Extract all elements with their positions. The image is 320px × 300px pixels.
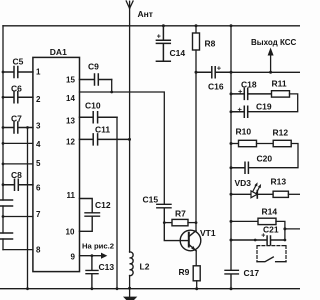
svg-text:C6: C6: [11, 84, 22, 94]
node: bus-C8 junction: [2, 183, 5, 186]
node: bus-pin5 junction: [2, 163, 5, 166]
wire: bottom ground bus: [0, 288, 300, 290]
node: C18 on right column: [230, 92, 233, 95]
svg-text:C13: C13: [99, 262, 115, 272]
svg-text:1: 1: [36, 68, 41, 77]
op-amp U1: IC DA1 box: [33, 57, 80, 271]
node: C17 on bottom bus: [230, 287, 233, 290]
svg-text:C15: C15: [143, 195, 159, 205]
svg-text:+: +: [157, 34, 161, 41]
svg-text:C12: C12: [95, 200, 111, 210]
wire: left bus vertical x=3 (upper part): [2, 26, 4, 200]
wire: C9 drop to pin14 wire: [111, 80, 113, 93]
wire: right column x=231 from top bus to C17: [230, 26, 232, 270]
inductor L2: [130, 252, 134, 276]
node: C7-dropline junction: [26, 126, 29, 129]
svg-text:R8: R8: [205, 39, 216, 49]
svg-text:DA1: DA1: [50, 47, 67, 57]
node: L2 on bottom bus: [128, 287, 131, 290]
svg-text:15: 15: [66, 76, 75, 85]
node: C14 on top bus: [162, 24, 165, 27]
node: R9 on bottom bus: [195, 287, 198, 290]
node: pin9-C13 junction: [91, 254, 94, 257]
wire: emitter down to R9: [195, 251, 197, 266]
svg-text:R11: R11: [272, 79, 287, 89]
node: R7 right junction on collector line: [195, 221, 198, 224]
svg-text:12: 12: [66, 138, 75, 147]
node: bus-C5 junction: [2, 71, 5, 74]
resistor R9: [193, 266, 200, 281]
wire: C10 drop line to bottom bus: [116, 117, 118, 288]
node: output arrow junction: [269, 71, 272, 74]
resistor R7: [164, 222, 172, 224]
node: C9 drop on pin14 wire: [110, 91, 113, 94]
wire: VD3 branch: [231, 193, 273, 195]
capacitor C17: [225, 270, 238, 288]
svg-text:C7: C7: [11, 114, 22, 124]
wire: antenna line down: [129, 8, 131, 252]
resistor R11: [272, 91, 290, 97]
capacitor C18: [231, 88, 272, 99]
svg-text:13: 13: [66, 117, 75, 126]
svg-text:R12: R12: [273, 128, 289, 138]
diode VD3 (LED): [251, 191, 257, 198]
capacitor (unlabeled, cut at left edge, upper inline): [0, 200, 13, 206]
node: C13 on bottom bus: [91, 287, 94, 290]
node: C16/right column junction: [230, 71, 233, 74]
svg-text:14: 14: [66, 94, 75, 103]
svg-text:3: 3: [36, 122, 41, 131]
wire: R10 to R12: [257, 143, 274, 145]
node: VD3 on right column: [230, 193, 233, 196]
capacitor C7: [3, 122, 33, 133]
node: R14 on right column: [230, 220, 233, 223]
svg-text:VT1: VT1: [200, 228, 216, 238]
node: C19 on right column: [230, 110, 233, 113]
svg-text:C19: C19: [256, 102, 272, 112]
svg-text:8: 8: [36, 246, 41, 255]
svg-text:R14: R14: [262, 207, 278, 217]
wire: pin 4 to left bus: [3, 142, 33, 144]
capacitor C19: [231, 106, 248, 117]
svg-text:9: 9: [71, 253, 76, 262]
svg-text:На рис.2: На рис.2: [82, 241, 114, 250]
svg-text:C5: C5: [13, 57, 24, 67]
svg-text:C16: C16: [208, 82, 224, 92]
svg-text:R9: R9: [179, 267, 190, 277]
svg-text:7: 7: [36, 210, 41, 219]
svg-text:C18: C18: [241, 80, 257, 90]
capacitor C14: [156, 26, 170, 61]
wire: pin 7 to left bus: [3, 216, 33, 218]
wire: R8 down to collector: [195, 50, 197, 231]
capacitor C13: [86, 256, 98, 289]
svg-text:6: 6: [36, 184, 41, 193]
svg-text:C8: C8: [11, 170, 22, 180]
resistor R10: [231, 143, 239, 145]
svg-text:R13: R13: [271, 177, 287, 187]
wire: R12 right corner down to C20: [249, 144, 298, 168]
ground: [123, 297, 137, 300]
node: dashed-box left tie on C21 wire: [254, 239, 257, 242]
capacitor C6: [3, 92, 33, 103]
capacitor C10 (pin 13): [80, 112, 118, 123]
capacitor C11 (pin 12): [80, 134, 130, 145]
resistor R8: [195, 26, 197, 33]
node: bus-pin7 junction: [2, 215, 5, 218]
svg-text:+: +: [261, 233, 265, 240]
node: C16 tap on R8 line: [195, 71, 198, 74]
capacitor (unlabeled, cut at left edge, lower inline): [0, 233, 13, 239]
wire: R14 right corner down to C21: [276, 221, 285, 240]
node: C21 on right column: [230, 239, 233, 242]
wire: left bus lower part down to pin8 corner: [2, 239, 4, 250]
node: R10 on right column: [230, 142, 233, 145]
svg-text:+: +: [238, 87, 243, 96]
svg-text:+: +: [217, 64, 222, 73]
capacitor C16: [196, 67, 231, 78]
wire: tap to right edge y=228.9: [285, 228, 300, 230]
transistor VT1: [180, 230, 201, 251]
svg-text:C9: C9: [88, 62, 99, 72]
node: R7 left junction: [163, 221, 166, 224]
wire: pin 9 output: [80, 255, 102, 257]
node: bus-C7 junction: [2, 126, 5, 129]
capacitor C21: [231, 236, 285, 245]
wire: drop line from C7 node down to bottom bus: [27, 128, 29, 289]
node: tap junction: [283, 227, 286, 230]
node: C20 on right column: [230, 166, 233, 169]
svg-text:C11: C11: [95, 125, 110, 135]
svg-text:5: 5: [36, 159, 41, 168]
svg-text:C10: C10: [85, 101, 101, 111]
node: right column on top bus: [230, 24, 233, 27]
resistor R12: [273, 140, 291, 146]
capacitor C15: [157, 204, 189, 240]
wire: top supply bus y=25.8: [3, 25, 300, 27]
arrow: to fig.2: [101, 253, 107, 259]
wire: left bus between inline caps: [2, 206, 4, 233]
wire: pin 8 from left bus corner: [3, 249, 33, 251]
wire: pin 14 to C15 column: [80, 92, 165, 204]
arrow: KSS output: [270, 53, 272, 72]
wire: R11 right corner down: [248, 94, 297, 112]
antenna symbol: [126, 1, 133, 8]
svg-text:+: +: [238, 105, 243, 114]
svg-text:C14: C14: [170, 48, 186, 58]
wire: ground stub below bus: [129, 288, 131, 296]
node: bus-C6 junction: [2, 96, 5, 99]
capacitor C12 (pins 11-10): [80, 199, 100, 232]
wire: L2 bottom to bus: [129, 276, 131, 289]
wire: R14 branch: [231, 220, 258, 222]
svg-text:10: 10: [66, 228, 75, 237]
resistor R14: [258, 218, 276, 224]
node: R8 on top bus: [195, 24, 198, 27]
svg-text:4: 4: [36, 140, 41, 149]
resistor R13: [273, 191, 288, 197]
capacitor C20: [231, 162, 248, 173]
node: C10 drop on bottom bus: [116, 287, 119, 290]
wire: output rail y=72.3 to right edge: [231, 71, 300, 73]
capacitor C9 (pin 15): [80, 74, 112, 85]
node: drop line on bottom bus: [26, 287, 29, 290]
svg-text:C17: C17: [244, 268, 260, 278]
svg-text:Выход КСС: Выход КСС: [251, 38, 296, 47]
capacitor C8: [3, 179, 33, 190]
capacitor C5: [3, 67, 33, 78]
svg-text:R7: R7: [175, 209, 186, 219]
node: bus-pin4 junction: [2, 142, 5, 145]
svg-text:2: 2: [36, 95, 41, 104]
node: C21 right junction: [284, 239, 287, 242]
svg-text:VD3: VD3: [235, 178, 252, 188]
svg-text:11: 11: [67, 191, 76, 200]
svg-text:C20: C20: [257, 154, 273, 164]
svg-text:L2: L2: [140, 262, 150, 272]
svg-text:R10: R10: [236, 127, 252, 137]
switch contact (in dashed box): [257, 246, 286, 262]
wire: pin 5 to left bus: [3, 163, 33, 165]
svg-text:Ант: Ант: [138, 9, 153, 19]
node: C11 on antenna line: [128, 138, 131, 141]
wire: R13 to right edge: [288, 193, 300, 195]
